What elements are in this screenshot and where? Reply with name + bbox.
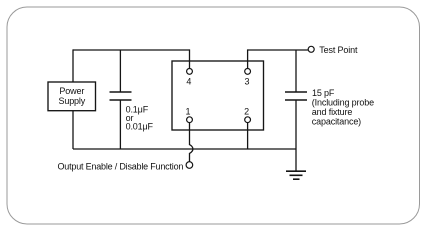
svg-text:2: 2 (244, 106, 249, 116)
wire pin 2 (247, 123, 249, 150)
wire pin 1 with crossover hop (190, 123, 193, 162)
svg-text:1: 1 (185, 106, 190, 116)
wire power supply top (72, 49, 74, 82)
svg-text:(Including probe: (Including probe (312, 97, 374, 107)
svg-text:Power: Power (59, 86, 84, 96)
wire power supply bottom (72, 111, 74, 149)
ground (286, 171, 306, 179)
DUT box U1 (172, 61, 264, 130)
svg-text:Output Enable / Disable Functi: Output Enable / Disable Function (58, 161, 184, 171)
capacitor C2 plates (15 pF) (285, 92, 307, 100)
wire top bus right (pin 3 to test point) (248, 49, 309, 51)
svg-text:4: 4 (186, 77, 191, 87)
pin 2 terminal (245, 117, 251, 123)
svg-text:Test Point: Test Point (319, 45, 358, 55)
svg-text:and fixture: and fixture (312, 107, 353, 117)
wire pin 3 (247, 49, 249, 68)
pin 1 terminal (187, 117, 193, 123)
wire capacitor C1 top (119, 50, 121, 92)
wire top bus left (power supply to pin 4) (73, 49, 190, 51)
power supply box (48, 82, 96, 111)
test point terminal (308, 46, 314, 52)
pin 4 terminal (187, 69, 193, 75)
svg-text:Supply: Supply (58, 96, 85, 106)
wire capacitor C2 top (295, 50, 297, 92)
svg-text:capacitance): capacitance) (312, 117, 361, 127)
output enable terminal (186, 162, 193, 169)
wire pin 4 (189, 49, 191, 68)
svg-text:0.01μF: 0.01μF (126, 122, 154, 132)
wire capacitor C2 bottom to ground (295, 100, 297, 171)
wire capacitor C1 bottom (119, 100, 121, 149)
pin 3 terminal (245, 69, 251, 75)
wire bottom bus (ground bus) (73, 148, 296, 150)
capacitor C1 plates (0.1uF) (110, 92, 132, 100)
svg-text:3: 3 (244, 77, 249, 87)
svg-text:15 pF: 15 pF (312, 88, 335, 98)
